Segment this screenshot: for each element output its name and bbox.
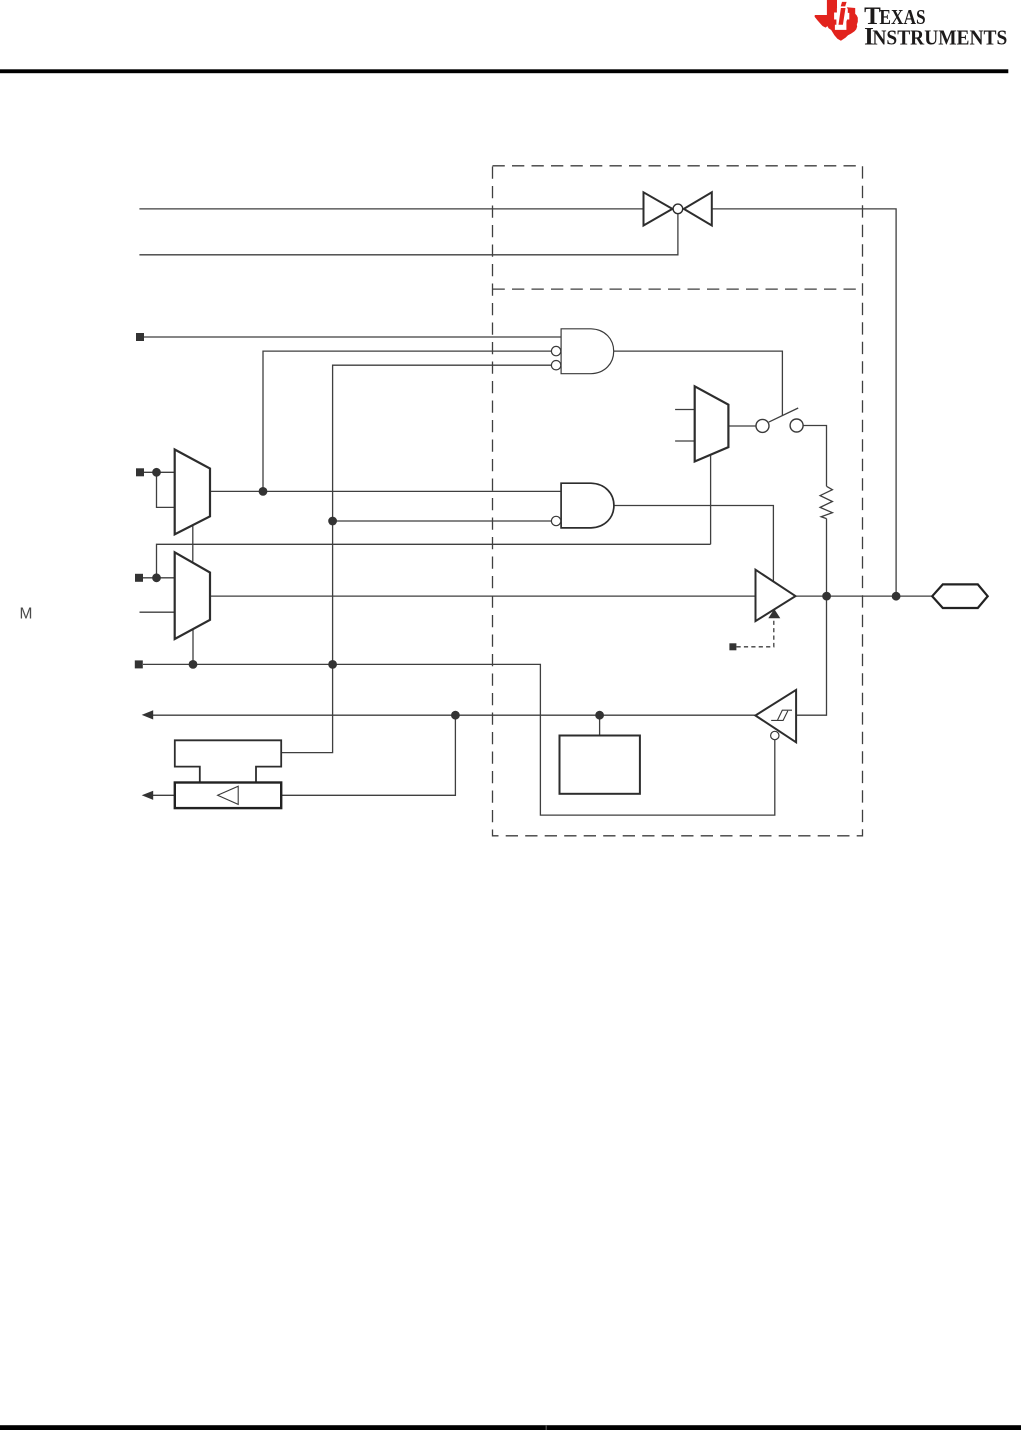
mux M3 (695, 386, 729, 461)
wire mux M1 select to mux M2 (192, 525, 194, 562)
switch arm (769, 408, 798, 422)
dashed divider line (493, 288, 863, 290)
TI logo wordmark (864, 3, 1007, 51)
switch contact circles (756, 419, 769, 432)
junction dots (152, 468, 900, 720)
input buffer block (175, 783, 281, 809)
buffer enable square (729, 643, 736, 650)
pad tab block (175, 740, 281, 782)
NAND input bubble (551, 516, 560, 525)
register box (560, 736, 640, 794)
wire NAND input 2 (333, 520, 552, 522)
transmission gate (bowtie) (644, 192, 712, 225)
wire switch to resistor (803, 426, 826, 487)
wire resistor to pad node to schmitt (796, 519, 826, 716)
wire schmitt output (150, 714, 755, 716)
AND input bubble 2 (551, 346, 560, 355)
schmitt enable bubble (771, 731, 779, 739)
wire mux M3 output to switch (728, 425, 756, 427)
TI logo red Texas bug (815, 0, 858, 41)
wire mux M2 output main line (210, 595, 756, 597)
wire bowtie right to pad node (712, 209, 896, 596)
wire AND output to switch arm (614, 351, 783, 415)
output buffer U3 (756, 570, 796, 621)
header rule (0, 69, 1008, 73)
wire schmitt out to lower block (281, 715, 455, 795)
dashed module boundary box (493, 166, 863, 836)
mux M2 (175, 552, 210, 639)
wire buffer output to pad (796, 595, 933, 597)
wire mux M1 output to NAND input 1 (210, 490, 561, 492)
wire mux M3 select (710, 455, 712, 544)
wire AND input 3 (281, 365, 551, 752)
wire input rail bottom (143, 664, 775, 815)
wire mux M1 input 1 (144, 471, 175, 473)
svg-text:NSTRUMENTS: NSTRUMENTS (872, 25, 1007, 49)
dashed enable line (737, 618, 774, 647)
mux M1 (175, 450, 210, 535)
resistor R1 (820, 486, 832, 518)
footer rule (0, 1425, 1021, 1430)
wire lower block output (150, 794, 175, 796)
AND input bubble 3 (551, 361, 560, 370)
input buffer triangle glyph (218, 786, 239, 804)
bowtie circle (673, 204, 683, 214)
wire NAND output to buffer enable (614, 506, 773, 582)
buffer enable arrow (768, 609, 780, 618)
svg-text:M: M (20, 605, 33, 622)
wire mux M3 input stubs (675, 409, 695, 411)
pad hexagon (932, 584, 988, 608)
wire mux M2 input 2 (140, 611, 175, 613)
wire top line 2 to bowtie circle (139, 214, 678, 255)
wire box feed (599, 715, 601, 735)
wire top line 1 to bowtie (139, 208, 643, 210)
wire AND input 2 (263, 351, 551, 491)
wire mux M1 input 2 drop (157, 472, 176, 507)
schmitt hysteresis glyph (771, 710, 792, 720)
output arrowheads (142, 710, 154, 719)
input squares (135, 333, 144, 668)
wire mux M2 input 1 (143, 577, 175, 579)
NAND gate U2 (561, 483, 614, 528)
wire AND input 1 (144, 336, 561, 338)
AND gate U1 (561, 329, 614, 374)
schmitt trigger U4 (755, 690, 796, 742)
wire mux M2 select (192, 629, 194, 665)
wire select rail (157, 544, 711, 578)
